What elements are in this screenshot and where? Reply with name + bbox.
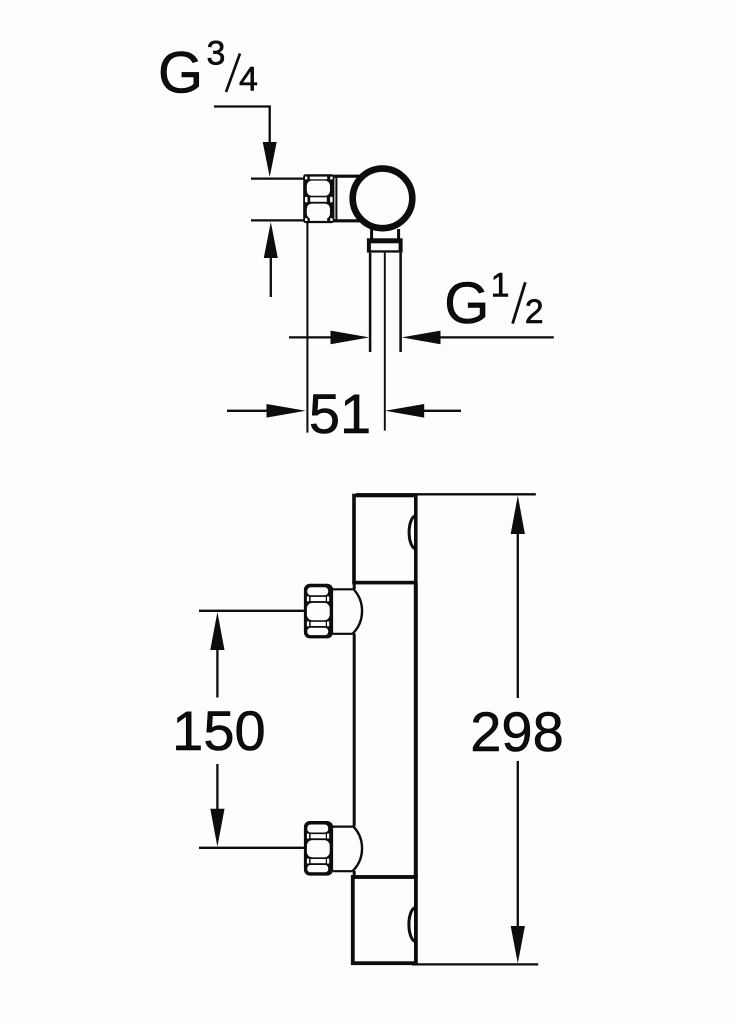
body rectangle (top view) [334, 175, 362, 178]
svg-text:2: 2 [525, 293, 544, 331]
298 dimension [511, 496, 525, 535]
top extension line (298) [356, 493, 536, 495]
extension line nut bottom [251, 219, 304, 221]
svg-text:3: 3 [207, 35, 226, 73]
bottom knob rect [353, 877, 416, 963]
centerline [384, 253, 386, 431]
label G 1/2 [444, 266, 543, 336]
150 dimension [210, 612, 224, 650]
bottom extension line (298) [412, 963, 538, 965]
label G 3/4 [158, 35, 258, 106]
upper union nut [304, 584, 333, 639]
down arrow (G3/4 dim top) [263, 142, 277, 177]
svg-text:G: G [158, 41, 203, 106]
extension line nut top [251, 177, 304, 179]
union nut G3/4 (top view) [303, 174, 334, 223]
svg-text:51: 51 [309, 382, 371, 445]
upper inlet: connector + dome [333, 588, 353, 590]
150 extension line lower [199, 847, 304, 849]
51 dimension [227, 410, 268, 412]
mid body left edge (interrupted by inlet domes) [353, 583, 356, 589]
extension line from nut left [306, 223, 308, 433]
neck below circle [370, 229, 373, 240]
top knob grip arc [409, 516, 416, 549]
pipe [369, 253, 372, 352]
lower union nut [304, 821, 333, 876]
lower inlet: connector + dome [333, 825, 353, 827]
svg-text:150: 150 [172, 699, 265, 762]
bottom knob grip arc [409, 908, 416, 942]
svg-text:298: 298 [470, 700, 563, 763]
svg-text:4: 4 [239, 60, 258, 98]
150 extension line upper [199, 610, 304, 612]
mid body right edge [414, 583, 418, 877]
top knob rect [354, 496, 416, 583]
up arrow (G3/4 dim bottom) [264, 222, 278, 258]
collar [367, 238, 403, 252]
G1/2 dimension arrows [289, 336, 332, 338]
svg-text:G: G [444, 271, 489, 336]
leader line from G3/4 [214, 105, 271, 107]
svg-text:1: 1 [491, 266, 510, 304]
circle (valve body top view) [353, 169, 413, 229]
